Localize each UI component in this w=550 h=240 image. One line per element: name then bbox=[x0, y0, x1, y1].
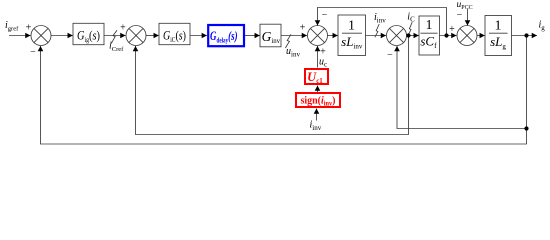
svg-text:Uc1: Uc1 bbox=[307, 70, 323, 85]
svg-text:uc: uc bbox=[319, 57, 327, 69]
svg-text:1: 1 bbox=[495, 19, 502, 34]
svg-text:sCf: sCf bbox=[420, 34, 437, 51]
svg-text:sLg: sLg bbox=[490, 34, 506, 51]
svg-text:−: − bbox=[322, 10, 328, 21]
svg-text:−: − bbox=[387, 50, 393, 61]
svg-text:−: − bbox=[30, 47, 36, 58]
svg-text:+: + bbox=[120, 22, 126, 33]
svg-text:uinv: uinv bbox=[286, 46, 300, 59]
svg-text:Gig(s): Gig(s) bbox=[77, 28, 100, 44]
svg-text:Gdelay(s): Gdelay(s) bbox=[210, 29, 238, 45]
svg-text:Ginv: Ginv bbox=[262, 29, 281, 45]
svg-text:1: 1 bbox=[348, 19, 355, 34]
svg-text:iinv: iinv bbox=[374, 12, 386, 25]
svg-text:sLinv: sLinv bbox=[341, 34, 363, 51]
svg-text:+: + bbox=[300, 22, 306, 33]
svg-text:iCref: iCref bbox=[109, 41, 124, 54]
svg-text:1: 1 bbox=[426, 18, 433, 33]
svg-text:igref: igref bbox=[5, 20, 19, 33]
svg-text:ig: ig bbox=[539, 20, 546, 33]
svg-text:−: − bbox=[457, 10, 463, 21]
svg-text:+: + bbox=[449, 24, 455, 35]
svg-text:GiC(s): GiC(s) bbox=[163, 28, 186, 44]
svg-text:+: + bbox=[26, 22, 32, 33]
svg-text:sign(iinv): sign(iinv) bbox=[301, 95, 336, 108]
svg-text:iC: iC bbox=[407, 11, 415, 23]
svg-text:iinv: iinv bbox=[310, 120, 322, 133]
